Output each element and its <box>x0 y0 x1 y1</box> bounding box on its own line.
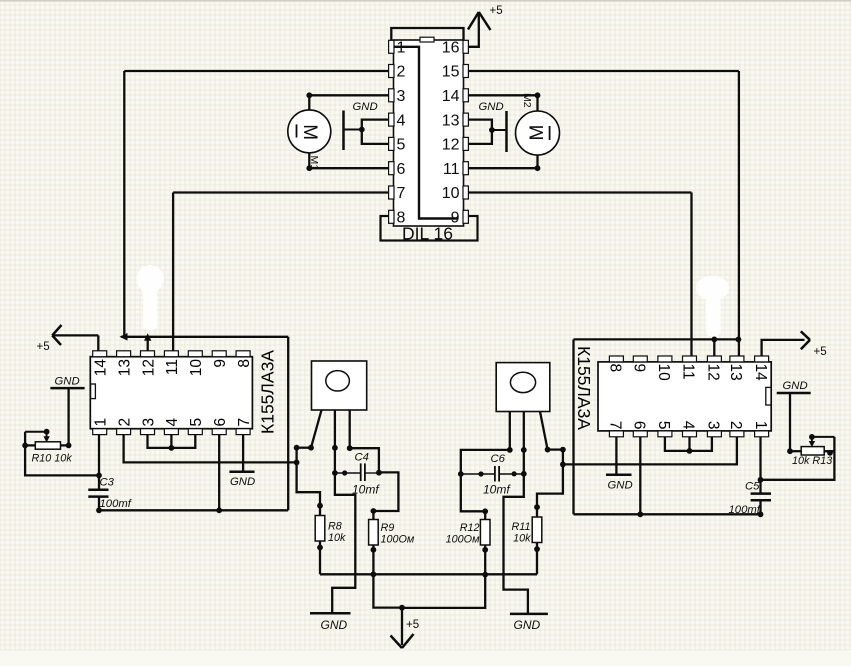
svg-text:10: 10 <box>655 364 672 382</box>
svg-text:4: 4 <box>397 112 406 129</box>
svg-text:+5: +5 <box>37 341 50 353</box>
svg-text:13: 13 <box>116 359 133 376</box>
svg-text:R11: R11 <box>511 521 530 533</box>
svg-text:К155ЛА3А: К155ЛА3А <box>574 346 594 430</box>
svg-text:3: 3 <box>140 418 157 427</box>
svg-text:C6: C6 <box>491 453 506 465</box>
svg-text:GND: GND <box>479 101 504 113</box>
svg-text:16: 16 <box>442 40 460 57</box>
svg-text:11: 11 <box>164 359 181 375</box>
svg-text:M2: M2 <box>521 93 533 108</box>
svg-text:GND: GND <box>55 376 80 388</box>
svg-text:9: 9 <box>212 359 229 368</box>
svg-text:4: 4 <box>164 418 181 427</box>
svg-text:11: 11 <box>680 364 697 380</box>
svg-text:5: 5 <box>188 418 205 427</box>
svg-text:R10 10k: R10 10k <box>32 452 73 464</box>
svg-text:+5: +5 <box>406 619 419 631</box>
svg-text:R9: R9 <box>381 522 395 534</box>
svg-text:10k: 10k <box>328 532 346 544</box>
svg-text:3: 3 <box>397 88 406 105</box>
svg-text:GND: GND <box>783 380 808 392</box>
svg-text:100Ом: 100Ом <box>381 534 415 546</box>
svg-text:14: 14 <box>752 364 769 382</box>
svg-text:1: 1 <box>752 421 769 430</box>
svg-text:M: M <box>527 125 548 141</box>
svg-text:GND: GND <box>230 476 255 488</box>
svg-text:10: 10 <box>188 359 205 377</box>
svg-text:C4: C4 <box>355 452 369 464</box>
svg-text:2: 2 <box>397 64 406 81</box>
svg-text:7: 7 <box>607 421 624 430</box>
svg-text:6: 6 <box>212 418 229 427</box>
svg-text:+5: +5 <box>490 5 503 17</box>
svg-text:DIL 16: DIL 16 <box>402 224 453 244</box>
svg-text:1: 1 <box>397 40 406 57</box>
svg-text:R12: R12 <box>460 522 480 534</box>
svg-text:GND: GND <box>353 101 378 113</box>
svg-text:10k R13: 10k R13 <box>792 455 832 467</box>
svg-text:6: 6 <box>631 421 648 430</box>
svg-text:15: 15 <box>442 64 460 81</box>
svg-text:M1: M1 <box>308 156 320 171</box>
svg-text:+5: +5 <box>814 346 827 358</box>
svg-text:7: 7 <box>397 185 406 202</box>
svg-text:12: 12 <box>442 137 460 154</box>
svg-text:100Ом: 100Ом <box>446 534 480 546</box>
svg-text:13: 13 <box>442 112 460 129</box>
svg-text:C3: C3 <box>100 477 115 489</box>
svg-text:R8: R8 <box>328 521 342 533</box>
svg-text:GND: GND <box>514 618 541 632</box>
svg-text:4: 4 <box>680 421 697 430</box>
svg-text:К155ЛА3А: К155ЛА3А <box>258 350 278 434</box>
svg-text:C5: C5 <box>745 481 760 493</box>
svg-text:100mf: 100mf <box>100 498 133 510</box>
svg-text:5: 5 <box>655 421 672 430</box>
svg-text:13: 13 <box>727 364 744 381</box>
svg-text:11: 11 <box>443 161 460 178</box>
svg-text:5: 5 <box>397 137 406 154</box>
svg-text:2: 2 <box>116 418 133 427</box>
svg-text:GND: GND <box>608 480 633 492</box>
svg-text:M: M <box>299 124 320 140</box>
svg-text:12: 12 <box>705 364 722 381</box>
svg-text:8: 8 <box>607 364 624 373</box>
svg-text:7: 7 <box>236 418 253 427</box>
svg-text:3: 3 <box>705 421 722 430</box>
svg-text:12: 12 <box>140 359 157 376</box>
svg-text:GND: GND <box>321 618 348 632</box>
svg-text:14: 14 <box>442 88 460 105</box>
svg-text:2: 2 <box>727 421 744 430</box>
svg-text:10k: 10k <box>513 533 531 545</box>
svg-text:10mf: 10mf <box>352 483 380 497</box>
svg-text:6: 6 <box>397 161 406 178</box>
svg-text:14: 14 <box>93 359 110 377</box>
svg-text:10mf: 10mf <box>483 483 511 497</box>
svg-text:9: 9 <box>631 364 648 373</box>
svg-text:10: 10 <box>442 185 460 202</box>
svg-text:8: 8 <box>236 359 253 368</box>
svg-text:1: 1 <box>93 418 110 427</box>
